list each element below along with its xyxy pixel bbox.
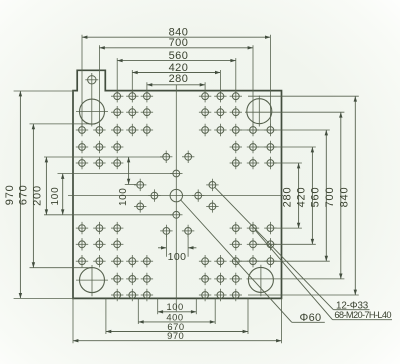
horizontal centerline xyxy=(68,195,283,197)
svg-text:200: 200 xyxy=(31,185,43,206)
bottom extension lines xyxy=(73,298,282,343)
svg-text:68-M20-7H-L40: 68-M20-7H-L40 xyxy=(334,310,391,320)
right dimension 840 xyxy=(338,96,357,295)
M20 tapped hole cluster top-left xyxy=(76,90,153,169)
leader and label &#934;60 xyxy=(181,200,325,324)
top dimension 840 xyxy=(82,27,270,39)
left dimension 970 xyxy=(4,91,22,298)
left dimension 100 xyxy=(50,174,64,215)
top extension lines xyxy=(82,35,270,127)
bottom dimension 670 xyxy=(106,321,248,333)
tie-bar hole top-right xyxy=(247,99,272,124)
inner dimension 100 horizontal xyxy=(158,235,196,263)
leader and label 12-&#934;33 xyxy=(215,187,370,311)
right dimension 560 xyxy=(309,130,328,261)
svg-text:100: 100 xyxy=(118,188,129,207)
bottom dimension 100 xyxy=(158,301,197,313)
bottom dimension 970 xyxy=(73,330,282,342)
vertical centerline xyxy=(175,85,177,311)
inner dimension 100 vertical xyxy=(118,157,136,206)
right dimension 700 xyxy=(324,112,343,279)
svg-text:700: 700 xyxy=(324,187,336,208)
svg-text:100: 100 xyxy=(50,186,61,205)
svg-text:670: 670 xyxy=(17,184,29,205)
svg-text:970: 970 xyxy=(4,184,16,205)
svg-text:100: 100 xyxy=(168,251,187,263)
svg-text:280: 280 xyxy=(169,73,189,85)
top dimension 560 xyxy=(117,50,236,62)
leader and label 68-M20-7H-L40 xyxy=(256,231,393,321)
svg-text:280: 280 xyxy=(282,187,294,208)
svg-text:420: 420 xyxy=(169,62,189,74)
M20 tapped hole cluster bottom-right xyxy=(199,222,277,301)
right extension lines xyxy=(240,96,359,295)
right dimension 420 xyxy=(295,147,314,244)
svg-text:700: 700 xyxy=(169,37,189,49)
M20 tapped hole cluster bottom-left xyxy=(76,222,153,301)
left dimension 200 xyxy=(31,157,48,215)
svg-text:Φ60: Φ60 xyxy=(300,312,322,324)
top dimension 420 xyxy=(132,62,220,74)
right dimension 280 xyxy=(282,163,301,228)
tie-bar hole bottom-left xyxy=(80,268,105,293)
ring of twelve holes around center xyxy=(134,151,219,238)
top dimension 700 xyxy=(99,37,253,49)
left dimension 670 xyxy=(17,124,35,268)
center locating hole xyxy=(170,189,182,201)
svg-text:840: 840 xyxy=(338,187,350,208)
bottom dimension 400 xyxy=(138,311,215,323)
tie-bar hole top-left xyxy=(80,99,105,124)
M20 tapped hole cluster top-right xyxy=(199,90,277,169)
svg-text:560: 560 xyxy=(309,187,321,208)
svg-text:560: 560 xyxy=(169,50,189,62)
top dimension 280 xyxy=(147,73,205,86)
svg-text:970: 970 xyxy=(167,330,184,341)
platen plate outline with top-left tab xyxy=(73,70,282,298)
tie-bar hole bottom-right xyxy=(248,267,273,292)
left extension lines xyxy=(14,91,173,298)
svg-text:420: 420 xyxy=(295,187,307,208)
tab locating hole xyxy=(88,76,96,84)
